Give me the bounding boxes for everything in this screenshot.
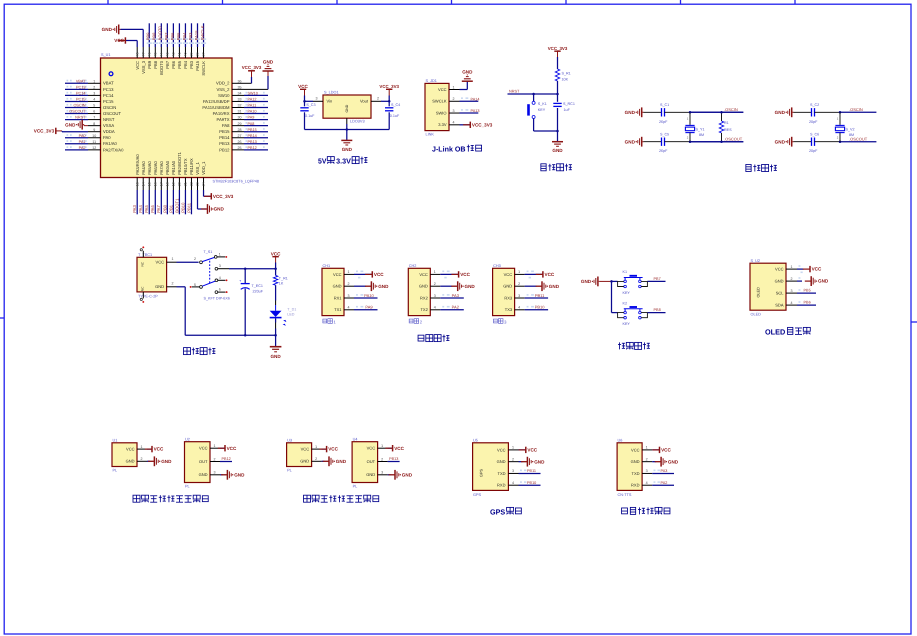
- svg-text:PL: PL: [113, 468, 118, 472]
- svg-text:TX2: TX2: [420, 307, 428, 312]
- svg-text:PB15: PB15: [219, 129, 230, 134]
- ir module U1 body: [112, 443, 137, 467]
- power port VCC voice: [652, 449, 659, 451]
- svg-text:S_U2: S_U2: [751, 259, 761, 263]
- svg-text:S_KFT DIP-6X6: S_KFT DIP-6X6: [204, 297, 230, 301]
- svg-text:RXD: RXD: [631, 483, 640, 488]
- svg-text:OSCOUT: OSCOUT: [103, 111, 121, 116]
- svg-text:PL: PL: [287, 468, 292, 472]
- wire net PB6: [172, 23, 174, 47]
- mcu bottom pin 13 stub: [136, 178, 138, 191]
- wire net PB7: [166, 23, 168, 47]
- svg-text:GPS: GPS: [480, 469, 484, 477]
- svg-text:PB13: PB13: [219, 141, 230, 146]
- svg-text:VBAT: VBAT: [103, 81, 114, 86]
- wire gnd to capacitor S_C6: [794, 141, 812, 143]
- ldo pin 3 stub: [313, 100, 323, 102]
- svg-text:PB6: PB6: [804, 301, 811, 305]
- svg-text:1: 1: [214, 444, 216, 448]
- oled pin 2 stub: [786, 280, 797, 282]
- wire CH3 pin2 to ground: [525, 285, 537, 287]
- wire net PB9: [148, 23, 150, 47]
- capacitor S_C2: [811, 108, 813, 116]
- svg-text:PA3: PA3: [452, 293, 460, 298]
- svg-text:PB5: PB5: [177, 60, 182, 68]
- CH3 pin 3 stub: [515, 297, 525, 299]
- svg-text:38: 38: [196, 53, 200, 57]
- svg-text:PB0/A0: PB0/A0: [165, 160, 170, 175]
- ground U4: [389, 474, 395, 476]
- svg-text:15: 15: [147, 182, 151, 186]
- svg-text:2: 2: [791, 277, 793, 281]
- svg-text:PB11: PB11: [535, 293, 545, 298]
- U1 pin2 stub: [137, 460, 147, 462]
- svg-text:2: 2: [837, 135, 839, 139]
- mcu U1 STM32F103C8T6 body: [101, 58, 233, 178]
- ldo gnd pin stub: [346, 118, 348, 124]
- svg-text:GND: GND: [155, 284, 164, 289]
- wire vcc to switch: [177, 261, 199, 263]
- svg-text:45: 45: [153, 53, 157, 57]
- tbc1 pin 1 stub: [167, 261, 177, 263]
- CH2 pin 1 stub: [430, 273, 440, 275]
- svg-text:GND: GND: [497, 459, 506, 464]
- svg-text:GND: GND: [775, 139, 786, 144]
- wire voice vcc: [652, 449, 659, 451]
- svg-text:U6: U6: [618, 438, 623, 442]
- svg-text:PA4/A0: PA4/A0: [141, 160, 146, 174]
- svg-text:S_C6: S_C6: [810, 132, 819, 136]
- svg-text:TX3: TX3: [505, 307, 513, 312]
- svg-text:1: 1: [93, 79, 95, 83]
- svg-text:RX3: RX3: [504, 295, 513, 300]
- ground gps: [521, 461, 527, 463]
- svg-text:PB10: PB10: [180, 202, 185, 213]
- wire key to bottom rail: [533, 119, 535, 132]
- svg-text:SWIO: SWIO: [436, 110, 447, 115]
- svg-text:VCC_3V3: VCC_3V3: [472, 122, 493, 127]
- wire net PB5: [178, 23, 180, 47]
- svg-text:TXD: TXD: [498, 471, 506, 476]
- svg-text:3: 3: [512, 469, 514, 473]
- svg-text:3: 3: [504, 319, 507, 324]
- mcu pin 9 stub: [88, 131, 101, 133]
- wire gnd rail: [177, 286, 186, 288]
- svg-text:S_C3: S_C3: [306, 103, 315, 107]
- tbc1 pin 2 stub: [167, 286, 177, 288]
- ground power circuit: [275, 335, 277, 346]
- svg-text:PA3/RX/A0: PA3/RX/A0: [135, 154, 140, 175]
- mcu pin 33 stub: [232, 100, 244, 102]
- mcu top pin 42 stub: [172, 47, 174, 58]
- svg-text:3: 3: [348, 294, 350, 298]
- svg-text:VCC: VCC: [328, 447, 338, 452]
- svg-text:VCC: VCC: [154, 447, 164, 452]
- wire capacitor to node: [815, 141, 841, 143]
- svg-text:4: 4: [518, 306, 520, 310]
- svg-text:32: 32: [238, 104, 242, 108]
- svg-text:VCC: VCC: [775, 267, 784, 272]
- svg-text:PA1: PA1: [79, 140, 86, 144]
- power port VCC_3V3 at VDDA pin 9: [55, 128, 57, 134]
- U4 pin 1 stub: [378, 447, 388, 449]
- wire net PC14: [65, 94, 88, 96]
- svg-text:VSS_2: VSS_2: [216, 87, 230, 92]
- wire capacitor to node: [665, 141, 691, 143]
- voice pin 4 stub: [642, 484, 652, 486]
- wire jlink pin1 to ground: [460, 89, 468, 91]
- svg-text:GND: GND: [419, 284, 428, 289]
- svg-text:GND: GND: [214, 207, 225, 212]
- wire net OSCIN: [65, 107, 88, 109]
- mcu bottom pin 15 stub: [148, 178, 150, 191]
- svg-text:3: 3: [453, 109, 455, 113]
- svg-text:PA5/A0: PA5/A0: [147, 160, 152, 174]
- svg-text:BOOT0: BOOT0: [159, 60, 164, 75]
- svg-text:VCC: VCC: [497, 447, 506, 452]
- svg-text:+: +: [239, 279, 241, 283]
- CH1 pin 4 stub: [344, 309, 354, 311]
- ldo pin 2 stub: [371, 100, 381, 102]
- wire jlink pin4 to VCC_3V3: [460, 124, 471, 126]
- svg-text:2: 2: [453, 97, 455, 101]
- svg-text:S_R1: S_R1: [562, 71, 571, 75]
- svg-text:PC13: PC13: [76, 85, 86, 89]
- svg-text:PA15: PA15: [194, 30, 199, 41]
- svg-text:1: 1: [512, 446, 514, 450]
- mcu pin 4 stub: [88, 100, 101, 102]
- svg-text:2: 2: [381, 457, 383, 461]
- svg-text:35: 35: [238, 85, 242, 89]
- svg-text:CH1: CH1: [323, 264, 331, 268]
- svg-text:PB11: PB11: [186, 202, 191, 213]
- ldo regulator U LDO1 body: [323, 95, 371, 118]
- svg-text:GND: GND: [161, 459, 172, 464]
- CH3 pin 2 stub: [515, 285, 525, 287]
- svg-text:GND: GND: [199, 472, 208, 477]
- wire net PB6: [797, 304, 816, 306]
- svg-text:PB7: PB7: [164, 32, 169, 41]
- svg-text:SWCLK: SWCLK: [200, 25, 205, 40]
- voice pin 3 stub: [642, 472, 652, 474]
- svg-text:S_C4: S_C4: [391, 103, 400, 107]
- ground reset: [557, 131, 559, 142]
- wire gnd to buttons: [600, 280, 612, 282]
- wire net OSCIN: [690, 111, 743, 113]
- ground oled: [805, 280, 811, 282]
- ground U1: [148, 460, 154, 462]
- wire net PB1: [172, 190, 174, 214]
- svg-text:1: 1: [646, 446, 648, 450]
- svg-text:3: 3: [381, 471, 383, 475]
- mcu pin 11 stub: [88, 143, 101, 145]
- CH1 pin 1 stub: [344, 273, 354, 275]
- led T_D1: [275, 305, 277, 311]
- svg-text:PB14: PB14: [248, 134, 257, 138]
- svg-text:T_R1: T_R1: [279, 276, 288, 280]
- power port VCC U1: [145, 448, 152, 450]
- svg-text:GPS: GPS: [473, 493, 481, 497]
- svg-text:U2: U2: [185, 437, 190, 441]
- svg-text:BOOT1: BOOT1: [174, 198, 179, 213]
- power port VCC_3V3 at VDD_2 pin 36: [244, 82, 252, 84]
- svg-text:PA3: PA3: [132, 205, 137, 213]
- svg-text:PA12: PA12: [248, 98, 257, 102]
- svg-text:48: 48: [135, 53, 139, 57]
- mcu top pin 45 stub: [154, 47, 156, 58]
- svg-text:2: 2: [420, 319, 423, 324]
- mcu bottom pin 16 stub: [154, 178, 156, 191]
- svg-text:1: 1: [141, 445, 143, 449]
- wire net PA5: [148, 190, 150, 214]
- mcu top pin 48 stub: [136, 47, 138, 58]
- svg-text:GND: GND: [270, 354, 281, 359]
- svg-text:S_LDO1: S_LDO1: [324, 91, 339, 95]
- svg-text:3.3V: 3.3V: [438, 122, 447, 127]
- svg-text:3: 3: [93, 92, 95, 96]
- svg-text:VCC: VCC: [298, 84, 308, 89]
- svg-text:26pF: 26pF: [659, 149, 668, 153]
- mcu pin 29 stub: [232, 125, 244, 127]
- mcu top pin 40 stub: [184, 47, 186, 58]
- wire net PB10 gps: [519, 484, 541, 486]
- wire CH3 pin1 to VCC: [525, 273, 543, 275]
- wire net PA0: [65, 137, 88, 139]
- mcu bottom pin 21 stub: [184, 178, 186, 191]
- wire CH2 pin3 net PA3: [440, 297, 464, 299]
- svg-text:29: 29: [238, 122, 242, 126]
- capacitor S_C5: [661, 138, 663, 146]
- svg-text:44: 44: [160, 53, 164, 57]
- svg-text:CN-TTS: CN-TTS: [618, 493, 632, 497]
- ground voice: [655, 461, 661, 463]
- svg-text:NRST: NRST: [509, 90, 520, 94]
- svg-text:PB5: PB5: [804, 289, 811, 293]
- svg-text:GND: GND: [818, 279, 829, 284]
- svg-text:PB3: PB3: [189, 60, 194, 68]
- U3 pin1 stub: [312, 448, 322, 450]
- svg-text:PB4: PB4: [182, 32, 187, 41]
- svg-text:S_JD1: S_JD1: [426, 79, 437, 83]
- ground at VSS_2 pin 35: [244, 88, 268, 90]
- wire ldo ground rail: [346, 124, 348, 130]
- mcu pin 32 stub: [232, 107, 244, 109]
- wire net PA11: [244, 107, 268, 109]
- svg-text:PB14: PB14: [219, 135, 230, 140]
- mcu top pin 44 stub: [160, 47, 162, 58]
- jlink pin 3 stub: [449, 112, 460, 114]
- svg-text:VCC: VCC: [460, 272, 470, 277]
- svg-text:KEY: KEY: [623, 291, 631, 295]
- svg-text:SWCLK: SWCLK: [432, 99, 447, 104]
- svg-text:VCC: VCC: [156, 260, 165, 265]
- serial connector CH1 body: [322, 268, 344, 315]
- svg-text:T_TBC1: T_TBC1: [138, 253, 152, 257]
- svg-text:PC13: PC13: [103, 87, 114, 92]
- svg-text:LDO3V3: LDO3V3: [350, 120, 365, 124]
- wire net PB14: [244, 137, 268, 139]
- oled pin 1 stub: [786, 268, 797, 270]
- svg-text:20pF: 20pF: [809, 120, 818, 124]
- wire net PA3: [136, 190, 138, 214]
- svg-text:4: 4: [512, 481, 514, 485]
- svg-text:39: 39: [190, 53, 194, 57]
- U2 pin 1 stub: [210, 447, 220, 449]
- U1 pin1 stub: [137, 448, 147, 450]
- svg-text:PC15: PC15: [103, 99, 114, 104]
- wire CH3 pin3 net PB11: [525, 297, 549, 299]
- ground CH3: [536, 285, 542, 287]
- wire gps vcc: [519, 449, 526, 451]
- tbc1 bottom nc pin: [142, 292, 144, 299]
- wire net PA1: [65, 143, 88, 145]
- svg-text:K2: K2: [623, 301, 628, 305]
- svg-text:PA11/USB/DM: PA11/USB/DM: [202, 105, 230, 110]
- svg-text:40: 40: [184, 53, 188, 57]
- svg-text:23: 23: [196, 182, 200, 186]
- power port VCC at mcu top: [136, 41, 138, 48]
- svg-text:R1: R1: [724, 121, 729, 125]
- ground CH1: [365, 285, 371, 287]
- svg-text:3: 3: [214, 471, 216, 475]
- wire gnd to capacitor S_C5: [644, 141, 662, 143]
- svg-text:J-Link OB: J-Link OB: [432, 145, 466, 154]
- wire net PA10: [244, 113, 268, 115]
- svg-text:30: 30: [238, 116, 242, 120]
- svg-text:8M: 8M: [849, 133, 854, 137]
- svg-text:0.1uF: 0.1uF: [390, 114, 400, 118]
- svg-text:PB4: PB4: [183, 60, 188, 68]
- mcu bottom pin 24 stub: [203, 178, 205, 191]
- svg-text:1: 1: [791, 265, 793, 269]
- wire U2 out net PB12: [220, 461, 232, 463]
- wire net PB8: [154, 23, 156, 47]
- svg-text:GND: GND: [300, 459, 309, 464]
- svg-text:1K: 1K: [279, 282, 284, 286]
- svg-text:2: 2: [512, 457, 514, 461]
- gps pin 2 stub: [508, 461, 518, 463]
- wire U4 gnd: [388, 474, 391, 476]
- svg-text:4: 4: [453, 121, 455, 125]
- wire gnd to capacitor S_C1: [644, 111, 662, 113]
- svg-text:PB0: PB0: [162, 204, 167, 213]
- caption ir switch module 1: [133, 495, 140, 502]
- U2 pin 2 stub: [210, 461, 220, 463]
- svg-text:33: 33: [238, 98, 242, 102]
- U4 pin 2 stub: [378, 461, 388, 463]
- svg-text:PB2/BOOT1: PB2/BOOT1: [177, 151, 182, 174]
- svg-text:1: 1: [687, 117, 689, 121]
- svg-text:KEY: KEY: [538, 108, 546, 112]
- svg-text:3: 3: [434, 294, 436, 298]
- svg-text:VSSA: VSSA: [103, 123, 114, 128]
- wire resistor to NRST node: [557, 81, 559, 94]
- svg-text:GND: GND: [503, 284, 512, 289]
- wire U2 vcc: [220, 447, 225, 449]
- svg-text:PA2: PA2: [661, 481, 668, 485]
- svg-text:PC14: PC14: [76, 92, 86, 96]
- svg-text:OLED: OLED: [757, 287, 761, 298]
- U4 pin 3 stub: [378, 474, 388, 476]
- wire capacitor to node: [815, 111, 841, 113]
- svg-text:GND: GND: [342, 147, 353, 152]
- led arrows: [283, 320, 286, 322]
- wire resistor to led: [275, 285, 277, 300]
- svg-text:2: 2: [518, 282, 520, 286]
- svg-text:36: 36: [238, 79, 242, 83]
- wire capacitor to node: [665, 111, 691, 113]
- wire net NRST: [508, 93, 558, 95]
- svg-text:S_C1: S_C1: [660, 103, 669, 107]
- mcu top pin 43 stub: [166, 47, 168, 58]
- svg-text:VCC: VCC: [199, 446, 208, 451]
- wire net PB15: [244, 131, 268, 133]
- serial connector CH2 body: [408, 268, 430, 315]
- usb connector T_TBC1 body: [137, 257, 167, 292]
- svg-text:GND: GND: [552, 148, 563, 153]
- svg-text:OLED: OLED: [751, 313, 762, 317]
- svg-text:41: 41: [178, 53, 182, 57]
- caption crystal circuit: [746, 165, 751, 172]
- svg-text:3: 3: [791, 289, 793, 293]
- svg-text:VCC_3V3: VCC_3V3: [213, 194, 234, 199]
- wire net PA2: [65, 149, 88, 151]
- svg-text:PA11: PA11: [248, 104, 257, 108]
- mcu pin 7 stub: [88, 119, 101, 121]
- caption ir switch module 2: [304, 495, 311, 502]
- svg-text:1: 1: [315, 445, 317, 449]
- svg-text:17: 17: [160, 182, 164, 186]
- svg-text:PB8: PB8: [153, 60, 158, 68]
- mcu pin 27 stub: [232, 137, 244, 139]
- svg-text:CH2: CH2: [409, 264, 417, 268]
- svg-text:PC14: PC14: [103, 93, 114, 98]
- svg-text:VCC: VCC: [504, 272, 513, 277]
- ground U3: [323, 460, 329, 462]
- svg-text:PB11: PB11: [527, 469, 536, 473]
- svg-text:VCC: VCC: [126, 447, 135, 452]
- svg-text:VCC: VCC: [661, 448, 671, 453]
- svg-text:4: 4: [646, 481, 648, 485]
- svg-text:PB7: PB7: [654, 277, 661, 281]
- svg-text:PA9: PA9: [365, 305, 373, 310]
- svg-text:34: 34: [238, 92, 242, 96]
- svg-text:GND: GND: [333, 284, 342, 289]
- svg-text:VCC: VCC: [114, 38, 124, 43]
- svg-text:5: 5: [93, 104, 95, 108]
- CH1 pin 3 stub: [344, 297, 354, 299]
- mcu bottom pin 19 stub: [172, 178, 174, 191]
- svg-text:OSCIN: OSCIN: [103, 105, 116, 110]
- svg-text:13: 13: [135, 182, 139, 186]
- svg-text:PB8: PB8: [152, 32, 157, 41]
- mcu pin 1 stub: [88, 82, 101, 84]
- wire net PA7: [160, 190, 162, 214]
- svg-text:OUT: OUT: [199, 459, 208, 464]
- svg-text:10K: 10K: [562, 78, 569, 82]
- svg-text:2: 2: [93, 85, 95, 89]
- mcu pin 10 stub: [88, 137, 101, 139]
- svg-text:2: 2: [214, 457, 216, 461]
- svg-text:GND: GND: [378, 284, 389, 289]
- svg-text:PB12: PB12: [219, 147, 230, 152]
- svg-text:.OSCOUT: .OSCOUT: [849, 137, 868, 142]
- mcu pin 30 stub: [232, 119, 244, 121]
- svg-text:GND: GND: [126, 459, 135, 464]
- svg-text:T_EC1: T_EC1: [252, 284, 263, 288]
- svg-text:T_S1: T_S1: [204, 250, 213, 254]
- svg-text:1: 1: [172, 257, 174, 261]
